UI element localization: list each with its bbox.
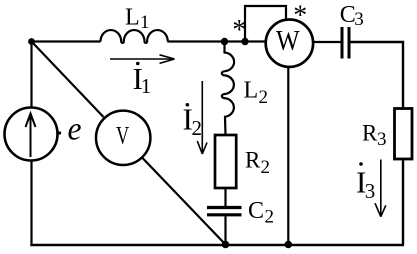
wattmeter current-coil loop wire bbox=[245, 6, 286, 42]
wire left vertical from node A to source bbox=[30, 42, 32, 108]
svg-text:3: 3 bbox=[365, 179, 376, 203]
svg-text:R: R bbox=[362, 121, 378, 146]
source e (circle) bbox=[5, 108, 58, 161]
wire R2 to C2 bbox=[224, 189, 226, 207]
svg-text:2: 2 bbox=[192, 116, 203, 140]
capacitor C3 bbox=[342, 27, 349, 59]
node D (bottom junction) bbox=[222, 241, 230, 249]
svg-text:R: R bbox=[245, 148, 261, 173]
node A bbox=[28, 38, 35, 45]
node B (L2 branch junction) bbox=[221, 38, 228, 45]
svg-text:2: 2 bbox=[261, 157, 271, 178]
svg-text:V: V bbox=[116, 123, 129, 150]
svg-text:2: 2 bbox=[259, 87, 269, 108]
node E (wattmeter bottom junction) bbox=[285, 241, 293, 249]
diagonal wire lower segment bbox=[143, 158, 226, 245]
polarity nub on source edge bbox=[58, 131, 61, 134]
wire top segment 1 bbox=[32, 40, 101, 42]
svg-text:2: 2 bbox=[265, 207, 275, 228]
inductor L2 (vertical branch) bbox=[222, 42, 234, 135]
wire C2 to bottom rail bbox=[224, 216, 226, 245]
capacitor C2 bbox=[207, 208, 242, 215]
wire R3 bottom to rail bbox=[402, 159, 404, 245]
svg-text:3: 3 bbox=[354, 9, 364, 30]
svg-text:L: L bbox=[125, 5, 140, 31]
inductor L1 bbox=[101, 30, 168, 43]
svg-text:1: 1 bbox=[140, 12, 150, 33]
wire below source bbox=[30, 161, 32, 246]
arrow I2 bbox=[197, 81, 207, 154]
wire wattmeter voltage coil down bbox=[287, 67, 289, 245]
svg-text:e: e bbox=[68, 112, 82, 148]
wire W right to C3 bbox=[314, 41, 341, 43]
node C (wattmeter loop junction) bbox=[241, 38, 248, 45]
svg-text:1: 1 bbox=[141, 74, 152, 98]
resistor R2 bbox=[215, 135, 236, 188]
source arrow bbox=[26, 114, 36, 158]
bottom rail wire bbox=[30, 244, 404, 247]
voltmeter V bbox=[96, 111, 150, 165]
svg-text:L: L bbox=[244, 78, 259, 104]
arrow I3 bbox=[375, 160, 386, 217]
svg-text:*: * bbox=[232, 15, 246, 46]
diagonal wire upper segment bbox=[32, 42, 104, 118]
svg-text:3: 3 bbox=[377, 129, 387, 150]
wire C3 to right corner and down to R3 bbox=[351, 42, 404, 109]
svg-text:W: W bbox=[276, 25, 300, 57]
resistor R3 bbox=[395, 109, 413, 160]
arrow I1 bbox=[110, 55, 175, 64]
wire top segment 2 bbox=[167, 40, 265, 42]
wattmeter W bbox=[266, 20, 313, 67]
svg-text:C: C bbox=[248, 198, 264, 224]
